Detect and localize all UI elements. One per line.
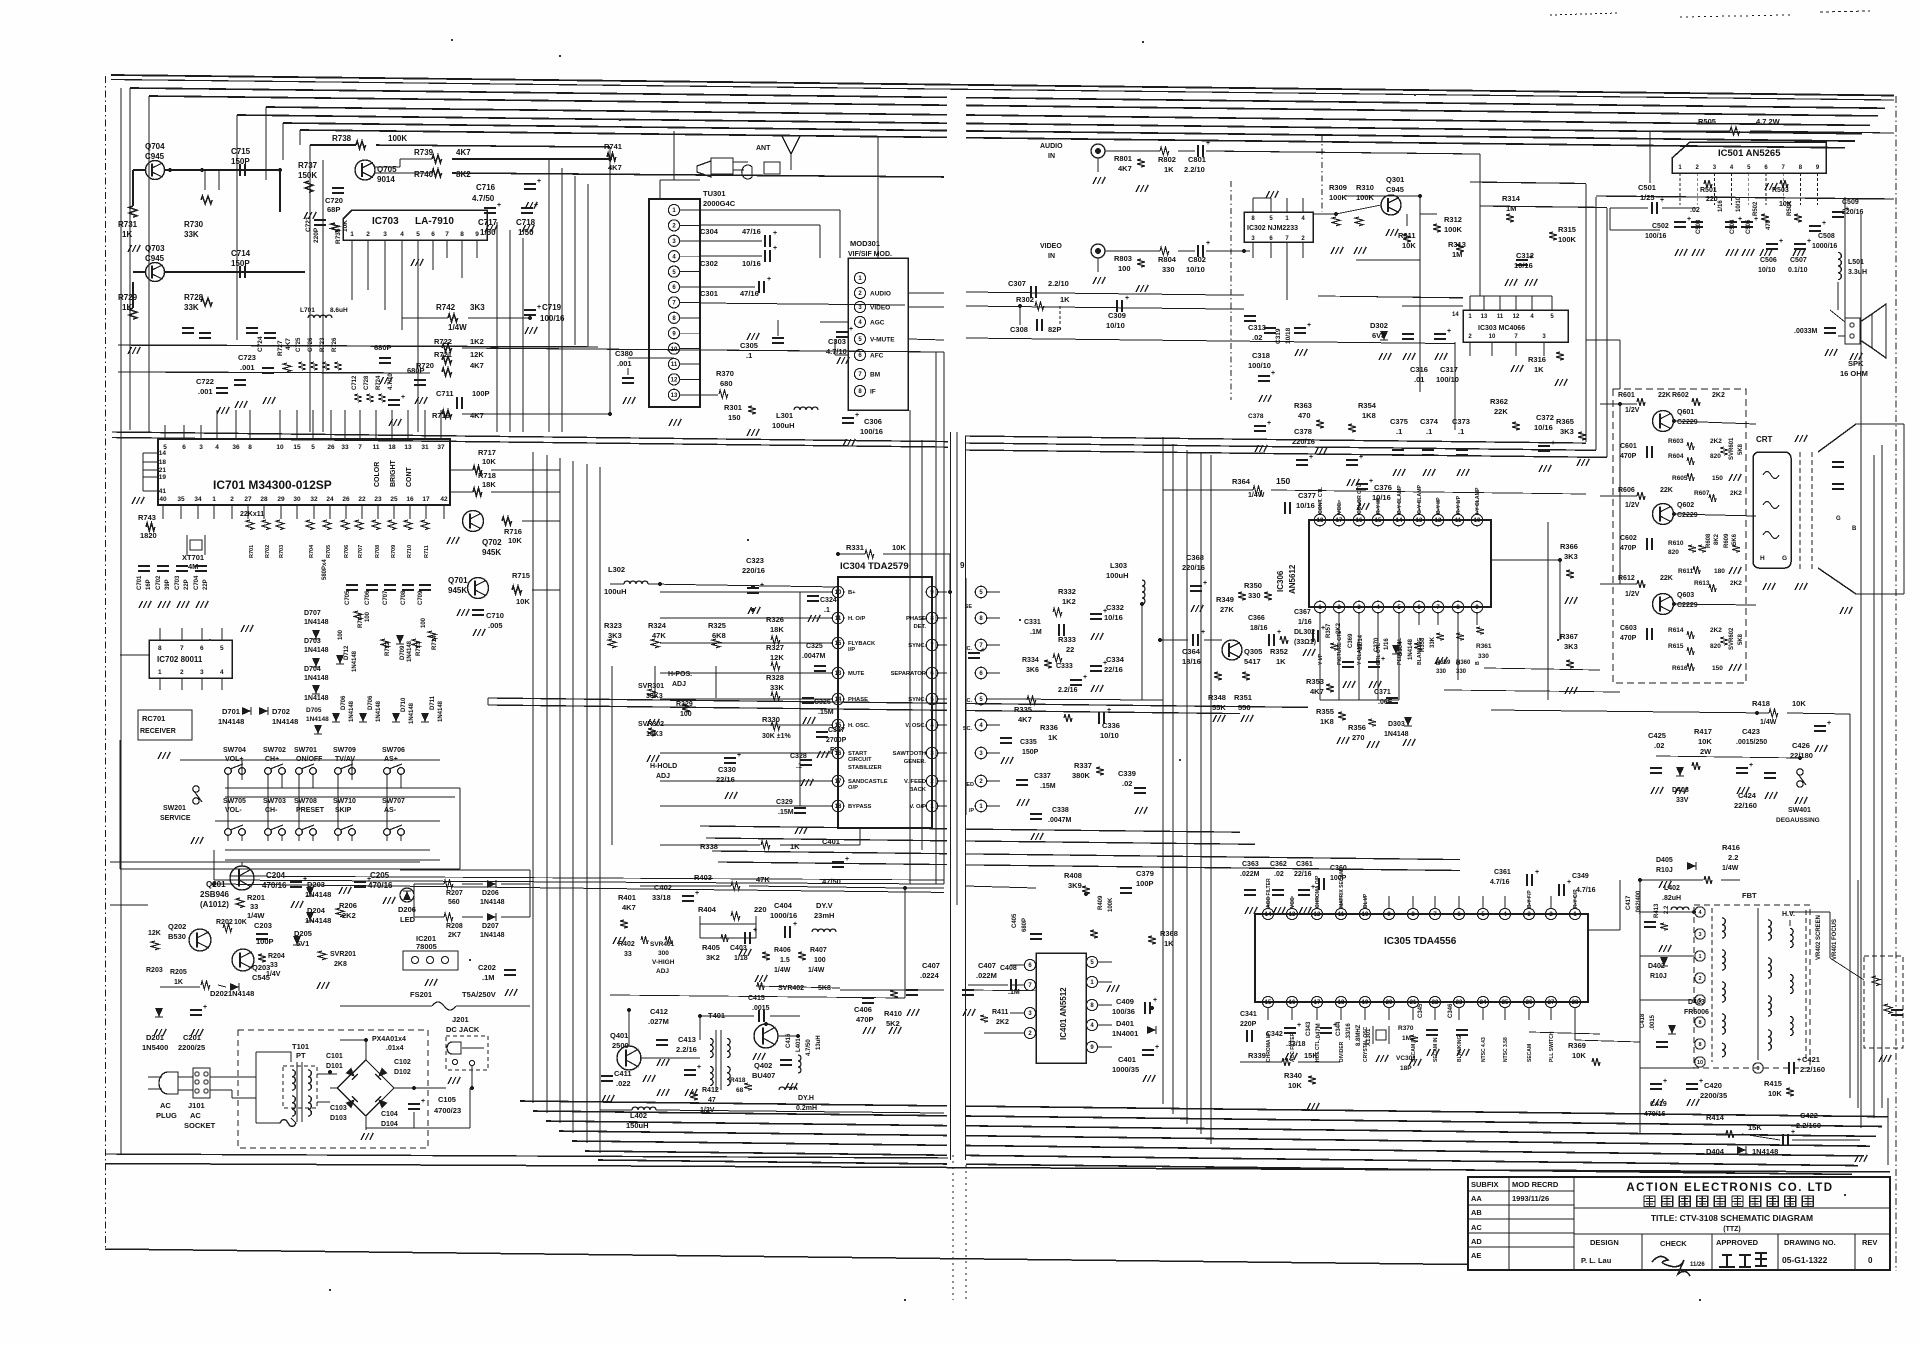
svg-text:C104: C104: [381, 1111, 398, 1118]
svg-text:R737: R737: [298, 161, 318, 170]
svg-text:1M: 1M: [1452, 250, 1462, 259]
svg-text:220/16: 220/16: [1292, 437, 1315, 446]
svg-text:.001: .001: [617, 359, 632, 368]
svg-text:100/16: 100/16: [540, 314, 565, 323]
svg-text:300: 300: [658, 950, 669, 957]
svg-text:16: 16: [1356, 518, 1363, 524]
svg-text:470P: 470P: [1620, 453, 1637, 460]
svg-text:C503: C503: [1696, 219, 1702, 234]
transistor Q704: [146, 161, 165, 180]
capacitor C802: [1197, 245, 1199, 257]
wire horizontal y292 right page: [1318, 296, 1463, 298]
bottom nest left vertical risers: [532, 452, 534, 1103]
svg-text:C103: C103: [330, 1105, 347, 1112]
svg-text:2K2: 2K2: [1710, 438, 1722, 445]
svg-text:8K2: 8K2: [456, 170, 471, 179]
svg-text:BM: BM: [870, 372, 880, 379]
capacitor C719: [524, 309, 536, 311]
svg-text:DET.: DET.: [913, 624, 926, 630]
svg-text:10K: 10K: [1768, 1089, 1782, 1098]
svg-text:1N4148: 1N4148: [1384, 731, 1409, 738]
svg-text:100/10: 100/10: [1248, 361, 1271, 370]
bus lines y 820-865: [700, 826, 947, 829]
svg-text:C330: C330: [718, 765, 736, 774]
svg-text:R316: R316: [1528, 355, 1546, 364]
svg-text:DY.V: DY.V: [816, 901, 833, 910]
capacitor C317: [1434, 333, 1446, 335]
svg-text:C708: C708: [401, 590, 407, 605]
svg-text:C707: C707: [383, 590, 389, 605]
svg-text:100P: 100P: [256, 937, 274, 946]
svg-text:C701: C701: [137, 575, 143, 590]
svg-text:C945: C945: [1386, 185, 1404, 194]
capacitor C501: [1651, 202, 1653, 214]
svg-text:1N4148: 1N4148: [409, 702, 415, 724]
svg-text:10/16: 10/16: [1534, 423, 1553, 432]
svg-text:D202: D202: [210, 989, 228, 998]
svg-text:24: 24: [1480, 1000, 1487, 1006]
IC305 bottom pins: [1262, 996, 1273, 1007]
svg-text:AC: AC: [1471, 1223, 1482, 1232]
svg-text:3K9: 3K9: [1068, 881, 1082, 890]
svg-text:1/50: 1/50: [480, 228, 496, 237]
svg-text:100K: 100K: [1108, 897, 1114, 912]
svg-text:18/16: 18/16: [1182, 657, 1201, 666]
svg-text:8: 8: [158, 645, 162, 652]
resistor R502 470: [1761, 214, 1769, 222]
svg-text:1K: 1K: [1048, 733, 1058, 742]
svg-text:C2229: C2229: [1677, 419, 1698, 426]
svg-text:R369: R369: [1568, 1041, 1586, 1050]
svg-text:10: 10: [671, 347, 678, 353]
svg-text:1N4148: 1N4148: [306, 716, 329, 723]
capacitor C509: [1832, 211, 1844, 213]
svg-text:C401: C401: [1118, 1055, 1136, 1064]
svg-text:.1: .1: [1458, 427, 1464, 436]
svg-text:R353: R353: [1306, 677, 1324, 686]
svg-text:R338: R338: [700, 842, 718, 851]
svg-text:11: 11: [835, 616, 842, 622]
svg-text:D204: D204: [307, 906, 326, 915]
svg-text:C318: C318: [1252, 351, 1270, 360]
svg-text:680P: 680P: [407, 366, 425, 375]
svg-text:14: 14: [159, 450, 167, 457]
svg-text:1N4148: 1N4148: [1752, 1147, 1778, 1156]
FBT primary winding: [1711, 908, 1713, 1062]
resistor R804: [1160, 247, 1169, 255]
svg-text:L402: L402: [1664, 885, 1680, 892]
capacitor C324: [807, 595, 819, 597]
svg-text:1N4148: 1N4148: [376, 700, 382, 722]
svg-text:R314: R314: [1502, 194, 1521, 203]
svg-text:3K3: 3K3: [1560, 427, 1574, 436]
IC304 TDA2579 box: [838, 577, 932, 828]
svg-text:10: 10: [1362, 912, 1369, 918]
svg-text:21: 21: [159, 467, 167, 474]
svg-text:820: 820: [1710, 643, 1721, 650]
svg-text:.0033M: .0033M: [1794, 328, 1818, 335]
svg-text:+: +: [1822, 220, 1826, 227]
svg-text:SVR601: SVR601: [1729, 437, 1735, 460]
svg-text:R601: R601: [1618, 392, 1635, 399]
wire bottom right vertical pair: [1849, 714, 1851, 1098]
svg-text:+: +: [1369, 478, 1373, 485]
capacitor C204: [290, 881, 302, 883]
resistor R611: [1693, 566, 1700, 574]
CRT caps: [1832, 461, 1844, 463]
svg-text:10/10: 10/10: [1186, 265, 1205, 274]
MOD301 pins: [854, 272, 865, 283]
ground under R729: [128, 347, 132, 354]
svg-text:DL I/P: DL I/P: [1363, 893, 1369, 908]
svg-text:C502: C502: [1652, 223, 1669, 230]
svg-text:39P: 39P: [165, 579, 171, 590]
svg-text:AGC: AGC: [870, 320, 885, 327]
svg-text:D701: D701: [222, 707, 240, 716]
wires from tuner pins: [700, 209, 840, 211]
svg-text:22P: 22P: [184, 579, 190, 590]
svg-text:+: +: [1359, 454, 1363, 461]
resistor R504: [1794, 214, 1802, 222]
svg-text:AC: AC: [190, 1111, 201, 1120]
svg-text:R616: R616: [1672, 665, 1688, 672]
svg-text:PHASE: PHASE: [848, 697, 868, 703]
svg-text:10/16: 10/16: [1372, 493, 1391, 502]
svg-text:R-Y O/P: R-Y O/P: [1573, 889, 1579, 908]
resistor R740: [432, 169, 442, 177]
wires LED network: [414, 883, 444, 885]
svg-text:R349: R349: [1216, 595, 1234, 604]
svg-text:220: 220: [754, 905, 767, 914]
svg-text:C316: C316: [1410, 365, 1428, 374]
svg-text:.01x4: .01x4: [386, 1045, 404, 1052]
svg-text:5417: 5417: [1244, 657, 1261, 666]
svg-text:SVR302: SVR302: [638, 721, 664, 728]
svg-text:470/16: 470/16: [262, 881, 287, 890]
svg-text:3K3: 3K3: [1564, 552, 1578, 561]
zener D302: [1380, 331, 1388, 340]
resistor R715: [512, 586, 522, 594]
wire audio line to IC501: [1479, 296, 1481, 430]
transistor Q401: [617, 1046, 641, 1070]
svg-text:33: 33: [270, 962, 278, 969]
capacitor C301: [758, 281, 760, 293]
company name chinese glyph row: [1644, 1196, 1655, 1207]
svg-text:10K: 10K: [1572, 1051, 1586, 1060]
svg-text:1K2: 1K2: [470, 337, 484, 346]
svg-text:55K: 55K: [1212, 703, 1226, 712]
resistor R803: [1137, 259, 1145, 267]
svg-text:R348: R348: [1208, 693, 1226, 702]
svg-text:VCC: VCC: [1290, 897, 1296, 908]
svg-text:D401: D401: [1116, 1019, 1134, 1028]
resistor R202: [223, 924, 232, 932]
capacitor C720: [332, 187, 344, 189]
svg-text:C369: C369: [1348, 633, 1354, 648]
svg-text:C338: C338: [1052, 807, 1069, 814]
svg-text:PICTURE CTL: PICTURE CTL: [1337, 630, 1343, 665]
IC306 box: [1309, 520, 1491, 607]
svg-text:12: 12: [1435, 518, 1442, 524]
svg-text:9: 9: [1756, 1066, 1759, 1072]
svg-text:+: +: [1277, 629, 1281, 636]
svg-text:C724: C724: [257, 336, 264, 352]
svg-text:.0015/250: .0015/250: [1736, 739, 1767, 746]
svg-text:R738: R738: [332, 134, 352, 143]
wire IC501 pin8 to speaker: [1844, 197, 1846, 318]
svg-text:REV: REV: [1862, 1238, 1877, 1247]
wires from left bank resistors to IC304: [611, 666, 613, 845]
svg-text:Q202: Q202: [168, 922, 186, 931]
resistor R309: [1332, 217, 1340, 226]
svg-text:D709: D709: [400, 645, 406, 660]
ground bracket above IC302: [1253, 197, 1271, 199]
svg-text:+: +: [1381, 656, 1385, 663]
svg-text:R337: R337: [1074, 761, 1092, 770]
svg-text:10K: 10K: [508, 536, 522, 545]
svg-text:.047M: .047M: [1316, 1023, 1322, 1040]
svg-text:82P: 82P: [1048, 325, 1061, 334]
svg-text:+: +: [1754, 216, 1758, 223]
svg-text:220/16: 220/16: [742, 566, 765, 575]
svg-text:18/16: 18/16: [1250, 625, 1268, 632]
resistor R208 2K7: [444, 913, 453, 921]
svg-text:1/4W: 1/4W: [448, 323, 467, 332]
wire IC703 pin stubs to y345: [351, 300, 353, 345]
CRT heater squiggles: [1763, 472, 1779, 479]
svg-text:C720: C720: [325, 196, 343, 205]
svg-text:19: 19: [1362, 1000, 1369, 1006]
svg-text:+: +: [1551, 440, 1555, 447]
svg-text:SERVICE: SERVICE: [160, 815, 191, 822]
svg-text:.02: .02: [1274, 871, 1284, 878]
svg-text:SW710: SW710: [333, 798, 356, 805]
svg-text:1M: 1M: [1506, 204, 1516, 213]
svg-text:+: +: [1447, 328, 1451, 335]
svg-text:C307: C307: [1008, 279, 1026, 288]
svg-text:R744: R744: [358, 613, 364, 628]
svg-text:BACK: BACK: [909, 787, 927, 793]
svg-text:.0047M: .0047M: [802, 653, 826, 660]
svg-text:VR402 SCREEN: VR402 SCREEN: [1816, 915, 1822, 960]
wire Q704 collector: [165, 169, 280, 171]
svg-text:B: B: [1475, 661, 1481, 665]
svg-text:C719: C719: [542, 303, 562, 312]
svg-text:FR6006: FR6006: [1684, 1009, 1709, 1016]
svg-text:2500: 2500: [612, 1041, 629, 1050]
capacitor C801: [1197, 145, 1199, 157]
svg-text:34: 34: [194, 496, 202, 503]
svg-text:AFC: AFC: [870, 353, 884, 360]
svg-text:D402: D402: [1648, 963, 1665, 970]
svg-text:3K3: 3K3: [470, 303, 485, 312]
svg-text:1N4148: 1N4148: [272, 717, 298, 726]
FBT pins circled: [1695, 907, 1705, 917]
svg-text:1/4V: 1/4V: [266, 971, 281, 978]
grounds under IC501 caps: [1675, 249, 1679, 256]
resistor R205: [201, 981, 210, 989]
diode D204: [306, 912, 314, 921]
svg-text:220P: 220P: [1240, 1021, 1257, 1028]
svg-text:26: 26: [1526, 1000, 1533, 1006]
ground under R731: [128, 245, 132, 252]
resistor R314: [1506, 214, 1514, 222]
svg-text:R324: R324: [648, 621, 667, 630]
CRT grounds right: [1840, 607, 1844, 614]
svg-text:C501: C501: [1638, 183, 1656, 192]
svg-text:MATRIX SECAM: MATRIX SECAM: [1339, 870, 1345, 908]
svg-text:+: +: [1153, 997, 1157, 1004]
svg-text:LED: LED: [400, 915, 416, 924]
svg-text:AS-: AS-: [384, 807, 397, 814]
svg-text:R202: R202: [216, 919, 233, 926]
svg-text:PRESET: PRESET: [296, 807, 325, 814]
wire fbt bottom bus: [1640, 1067, 1694, 1069]
svg-text:4: 4: [215, 444, 219, 451]
svg-text:4.7/16: 4.7/16: [1490, 879, 1510, 886]
RCA plug 1: [697, 158, 733, 177]
svg-text:1/4W: 1/4W: [247, 911, 265, 920]
svg-text:R407: R407: [810, 947, 827, 954]
svg-text:R401: R401: [618, 893, 636, 902]
svg-text:R366: R366: [1560, 542, 1578, 551]
svg-text:820: 820: [1668, 549, 1679, 556]
svg-text:R803: R803: [1114, 254, 1132, 263]
svg-text:R408: R408: [1064, 871, 1082, 880]
transistor Q705: [355, 160, 375, 180]
capacitor 680P lower: [414, 379, 426, 381]
resistor R742: [448, 314, 458, 322]
resistor R324: [651, 639, 659, 648]
svg-text:IC501 AN5265: IC501 AN5265: [1718, 148, 1781, 159]
seam-side long verticals: [909, 410, 911, 884]
svg-text:1/25: 1/25: [1640, 193, 1655, 202]
svg-text:C421: C421: [1802, 1055, 1820, 1064]
svg-text:10: 10: [1474, 518, 1481, 524]
ground under IC703: [411, 259, 415, 266]
svg-text:16: 16: [1289, 1000, 1296, 1006]
capacitor C205: [354, 881, 366, 883]
svg-text:+: +: [1203, 580, 1207, 587]
svg-text:100K: 100K: [1444, 225, 1463, 234]
svg-text:C374: C374: [1420, 417, 1439, 426]
svg-text:R729: R729: [118, 293, 138, 302]
svg-text:22P: 22P: [203, 579, 209, 590]
svg-text:SPK: SPK: [1848, 359, 1864, 368]
wire R612 vertical feeds: [1619, 404, 1621, 584]
svg-text:R354: R354: [1358, 401, 1377, 410]
svg-text:C416: C416: [786, 1033, 792, 1048]
svg-text:22K: 22K: [1660, 575, 1673, 582]
svg-text:R414: R414: [1706, 1113, 1725, 1122]
svg-text:R326: R326: [766, 615, 784, 624]
junction dots: [168, 168, 172, 172]
svg-text:18K: 18K: [770, 625, 784, 634]
svg-text:13: 13: [1289, 912, 1296, 918]
svg-text:16: 16: [835, 751, 842, 757]
svg-text:R609: R609: [1724, 533, 1730, 548]
svg-text:L303: L303: [1110, 561, 1127, 570]
wires left edge mid: [110, 431, 121, 433]
svg-text:C361: C361: [1296, 861, 1313, 868]
svg-text:+: +: [793, 921, 797, 928]
svg-text:270: 270: [1352, 733, 1365, 742]
svg-text:VR401 FOCUS: VR401 FOCUS: [1832, 919, 1838, 960]
svg-text:100: 100: [1118, 264, 1131, 273]
svg-text:ADJ: ADJ: [656, 968, 669, 975]
svg-text:1N4148: 1N4148: [480, 932, 505, 939]
svg-text:C312: C312: [1516, 251, 1534, 260]
svg-text:SW709: SW709: [333, 747, 356, 754]
svg-text:22: 22: [1066, 645, 1074, 654]
svg-text:C715: C715: [231, 147, 251, 156]
svg-text:(33Ω1): (33Ω1): [1294, 639, 1316, 646]
svg-text:+: +: [1103, 608, 1107, 615]
svg-text:+: +: [1567, 879, 1571, 886]
svg-text:C711: C711: [436, 389, 454, 398]
capacitor C307: [1030, 286, 1032, 298]
svg-text:2.2/160: 2.2/160: [1800, 1065, 1825, 1074]
svg-text:10/16: 10/16: [1514, 261, 1533, 270]
svg-text:2: 2: [1698, 976, 1701, 982]
svg-text:SVR301: SVR301: [638, 683, 664, 690]
capacitor C721 220P: [314, 219, 326, 221]
svg-text:C407: C407: [978, 961, 996, 970]
svg-text:NTSC 4.43: NTSC 4.43: [1481, 1037, 1487, 1062]
verticals at x905-944 power feed: [904, 888, 906, 998]
wire audio in: [1105, 150, 1160, 152]
resistor R714: [428, 631, 436, 640]
svg-text:13: 13: [671, 393, 678, 399]
capacitor C419: [1650, 1083, 1662, 1085]
resistor R716: [502, 517, 512, 525]
svg-text:2: 2: [180, 669, 184, 676]
svg-text:3K3: 3K3: [608, 631, 622, 640]
svg-text:1/4W: 1/4W: [808, 967, 825, 974]
svg-text:C703: C703: [175, 575, 181, 590]
svg-text:C341: C341: [1240, 1011, 1257, 1018]
svg-text:.0015: .0015: [752, 1005, 770, 1012]
IC302 NJM2233 box: [1244, 212, 1313, 242]
diode D206b: [487, 880, 496, 888]
svg-text:AUDIO: AUDIO: [870, 291, 891, 298]
svg-text:SW703: SW703: [263, 798, 286, 805]
svg-text:.02: .02: [1690, 207, 1700, 214]
svg-text:CIRCUIT: CIRCUIT: [848, 757, 872, 763]
svg-text:40: 40: [159, 496, 167, 503]
svg-text:H: H: [1760, 555, 1765, 562]
svg-text:C504: C504: [1730, 219, 1736, 234]
svg-text:68: 68: [736, 1087, 744, 1094]
svg-text:C722: C722: [196, 377, 214, 386]
wire L303 bottom: [1120, 699, 1163, 701]
svg-text:R368: R368: [1160, 929, 1178, 938]
svg-text:10/16: 10/16: [1296, 501, 1315, 510]
diode D202: [230, 983, 239, 991]
svg-text:Q401: Q401: [610, 1031, 628, 1040]
svg-text:1K: 1K: [174, 979, 183, 986]
svg-text:C406: C406: [854, 1005, 872, 1014]
svg-text:C721: C721: [305, 216, 312, 232]
svg-text:+: +: [855, 412, 859, 419]
svg-text:R717: R717: [478, 448, 496, 457]
wire bridge top to fuse: [365, 1040, 367, 1060]
svg-text:R328: R328: [766, 673, 784, 682]
svg-text:C710: C710: [486, 611, 504, 620]
resistor R802: [1160, 147, 1169, 155]
svg-text:1K: 1K: [790, 842, 800, 851]
diode D201: [155, 1008, 163, 1017]
